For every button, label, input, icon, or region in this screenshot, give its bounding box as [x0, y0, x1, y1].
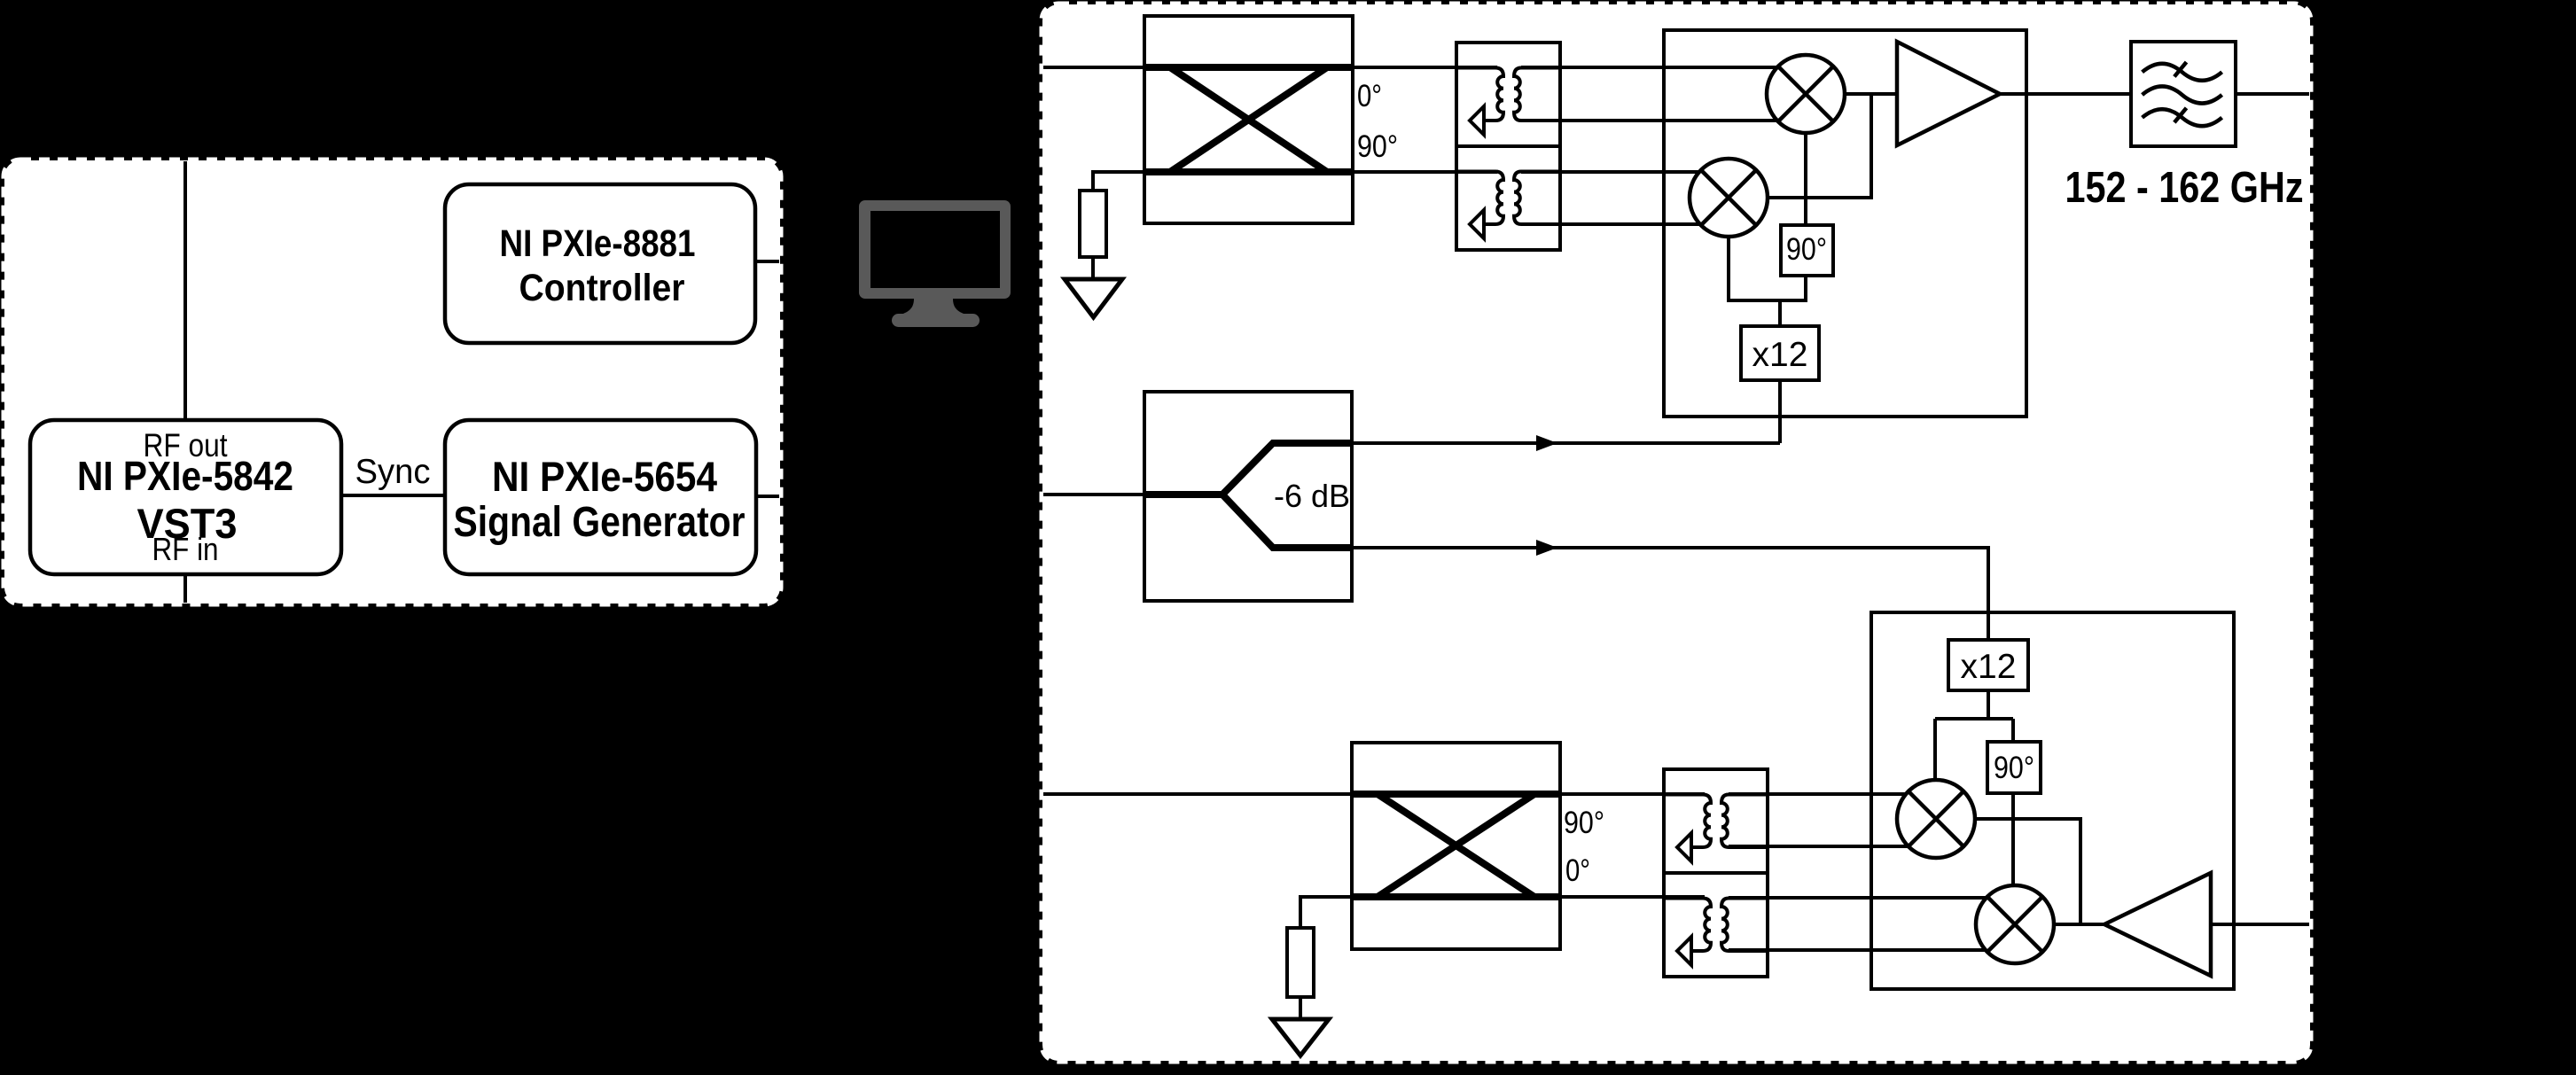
wire 0deg path to balun D [1560, 895, 1705, 899]
wire x12 input [1778, 380, 1782, 443]
wire 0deg path to balun [1353, 66, 1497, 69]
svg-text:90°: 90° [1357, 129, 1398, 164]
VST box NI PXIe-5842 VST3 [30, 420, 341, 574]
wire 90deg path to balun C [1560, 792, 1705, 796]
mixer M2 [1690, 159, 1768, 237]
wire RX input [1043, 792, 1352, 796]
svg-text:x12: x12 [1752, 336, 1808, 374]
TX mixer block box [1664, 30, 2026, 417]
wire sync [341, 494, 445, 497]
svg-text:NI PXIe-5654: NI PXIe-5654 [492, 453, 717, 500]
wire RF out (VST3 top port) [183, 161, 187, 420]
svg-text:Sync: Sync [355, 453, 431, 491]
ground G1 [1065, 279, 1122, 317]
svg-text:x12: x12 [1961, 648, 2017, 686]
wire resistor R2 to ground [1299, 997, 1302, 1019]
wire amp to filter [2000, 92, 2131, 96]
controller U1 box NI PXIe-8881 [445, 184, 755, 343]
mixer M4 [1976, 885, 2054, 963]
mixer M1 [1767, 55, 1845, 133]
wire M2 LO [1729, 198, 1806, 300]
RX mixer block box [1871, 612, 2234, 989]
svg-text:Controller: Controller [519, 267, 685, 309]
multiplier x12 (RX) [1948, 640, 2028, 690]
balun T2 [1456, 146, 1560, 250]
wire M4 output to amp tip [2015, 923, 2104, 926]
wire RF in (VST3 bottom port) [183, 574, 187, 603]
wire M1 output to amp [1806, 92, 1897, 96]
wire signal generator stub [756, 495, 779, 498]
filter FL1 [2131, 42, 2236, 146]
wire controller stub [755, 260, 779, 263]
svg-text:-6 dB: -6 dB [1274, 478, 1350, 514]
left instrument panel (dashed) [4, 160, 780, 604]
svg-text:90°: 90° [1786, 232, 1827, 267]
wire LO input [1043, 493, 1144, 496]
svg-text:90°: 90° [1564, 806, 1604, 840]
svg-text:0°: 0° [1565, 853, 1590, 888]
wire termination stub [1093, 172, 1144, 191]
wire TX IF input [1043, 66, 1144, 69]
wire M1 LO [1804, 94, 1807, 225]
amplifier A2 [2104, 873, 2211, 976]
arrowhead LO RX [1536, 540, 1557, 556]
hybrid coupler HY1 [1144, 16, 1353, 223]
wire amp2 input from border [2211, 923, 2309, 926]
wire 90 to M4 [2011, 793, 2015, 885]
svg-text:0°: 0° [1357, 79, 1382, 113]
svg-text:Signal Generator: Signal Generator [454, 499, 745, 546]
resistor R2 termination [1287, 928, 1314, 997]
wire LO to TX x12 [1352, 441, 1780, 445]
wires balun A to mixer M1 [1521, 67, 1806, 121]
arrowhead LO TX [1536, 435, 1557, 451]
svg-text:RF in: RF in [152, 531, 219, 567]
ground G2 [1272, 1019, 1329, 1056]
wires balun B to mixer M2 [1521, 172, 1729, 224]
wire resistor to ground [1091, 257, 1095, 279]
wire x12 RX input continuation [1987, 612, 1990, 640]
wire M2 output join [1729, 94, 1871, 198]
svg-text:90°: 90° [1994, 751, 2034, 785]
multiplier x12 (TX) [1741, 326, 1819, 380]
phase shifter 90deg box (TX) [1781, 225, 1833, 276]
svg-text:NI PXIe-5842: NI PXIe-5842 [77, 453, 293, 499]
balun T3 [1664, 769, 1768, 873]
monitor icon [859, 200, 1011, 327]
phase shifter 90deg box (RX) [1987, 742, 2041, 793]
wires balun C to mixer M3 [1729, 794, 1936, 846]
balun T4 [1664, 873, 1768, 977]
wires balun D to mixer M4 [1729, 898, 2015, 950]
mixer M3 [1897, 780, 1975, 858]
wire M3 output [1936, 819, 2080, 924]
svg-text:NI PXIe-8881: NI PXIe-8881 [500, 222, 696, 265]
wire termination stub RX [1300, 897, 1352, 928]
wire 90deg path to balun [1353, 170, 1497, 174]
balun T1 [1456, 43, 1560, 146]
svg-text:152 - 162 GHz: 152 - 162 GHz [2065, 164, 2304, 212]
signal generator box NI PXIe-5654 [445, 420, 756, 574]
wire x12 RX output split [1935, 690, 2013, 780]
splitter SP1 -6dB [1144, 392, 1352, 601]
wire LO to RX x12 [1352, 548, 1988, 640]
right converter panel (dashed) [1042, 4, 2310, 1061]
wire TX RF output [2236, 92, 2309, 96]
amplifier A1 [1897, 42, 2000, 145]
wire x12 to LO split [1778, 300, 1782, 326]
resistor R1 termination [1080, 191, 1106, 257]
hybrid coupler HY2 [1352, 743, 1560, 949]
